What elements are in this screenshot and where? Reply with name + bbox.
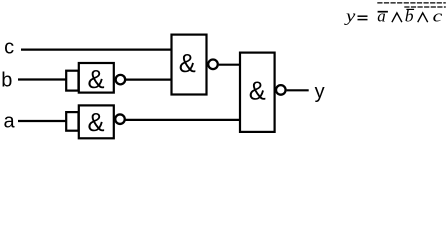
- svg-text:a: a: [4, 110, 16, 132]
- NAND-as-NOT gate U1 (inverter for b): input stub box: [66, 71, 78, 91]
- svg-text:&: &: [88, 109, 105, 137]
- svg-text:y: y: [344, 7, 356, 26]
- wire U3 output to gate U4 top input: [219, 64, 241, 66]
- svg-text:a: a: [377, 7, 386, 26]
- NAND gate U3: inversion bubble: [208, 60, 218, 70]
- NAND gate U4 (output gate): body: [240, 53, 275, 132]
- NAND-as-NOT gate U2 (inverter for a): input stub box: [66, 112, 78, 131]
- equation: overline over (b AND c): [404, 6, 446, 8]
- equation: bar over a: [378, 11, 388, 13]
- svg-text:&: &: [88, 66, 105, 94]
- NAND-as-NOT gate U2: body: [79, 105, 114, 138]
- NAND gate U4: inversion bubble: [276, 85, 286, 95]
- svg-text:c: c: [433, 7, 443, 26]
- equation: first AND wedge: [392, 13, 402, 22]
- wire U4 output to node y: [287, 89, 309, 91]
- wire U1 output to gate U3 bottom input: [126, 78, 172, 80]
- NAND-as-NOT gate U2: inversion bubble: [115, 114, 125, 124]
- svg-text:&: &: [179, 50, 196, 78]
- equation: outer overline over whole expression: [377, 2, 446, 4]
- NAND-as-NOT gate U1: inversion bubble: [116, 75, 126, 85]
- equation: bar over b: [407, 8, 415, 10]
- svg-text:&: &: [249, 77, 266, 105]
- wire a to gate U2 input: [18, 120, 67, 122]
- equation y = not( not-a and not( not-b and c ) ): [344, 3, 446, 26]
- wire c to gate U3 top input: [21, 48, 172, 50]
- svg-text:c: c: [4, 37, 14, 59]
- equation: second AND wedge: [418, 13, 428, 22]
- NAND-as-NOT gate U1: body: [79, 63, 114, 93]
- NAND gate U3 (c AND NOT-b, inverted): body: [172, 35, 207, 95]
- wire b to gate U1 input: [18, 78, 67, 80]
- svg-text:y: y: [315, 81, 325, 103]
- wire U2 output to gate U4 bottom input: [126, 119, 242, 121]
- svg-text:b: b: [1, 70, 12, 92]
- equation: equals sign: [358, 15, 368, 17]
